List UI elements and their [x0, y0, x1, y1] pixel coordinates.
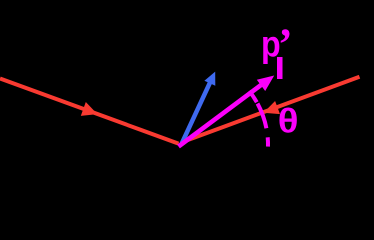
magenta arrowhead	[257, 76, 274, 92]
magenta scattered-photon arrow p' shaft	[179, 84, 264, 147]
blue arrowhead	[204, 72, 215, 86]
arrowhead on left red ray	[81, 102, 98, 116]
svg-text:θ: θ	[278, 102, 299, 140]
dashed magenta angle arc for theta, dash 1 crossing the arrow	[249, 91, 257, 102]
dashed magenta angle arc for theta, dash 3	[266, 137, 270, 146]
dashed magenta angle arc for theta, dash 2	[258, 104, 267, 129]
wire: incident red ray (left segment)	[0, 79, 179, 144]
arrowhead on right red ray pointing toward vertex	[264, 101, 281, 114]
label subscript bar under p'	[277, 57, 283, 79]
blue recoil arrow shaft	[182, 82, 211, 145]
wire: red ray (right segment)	[187, 77, 360, 141]
